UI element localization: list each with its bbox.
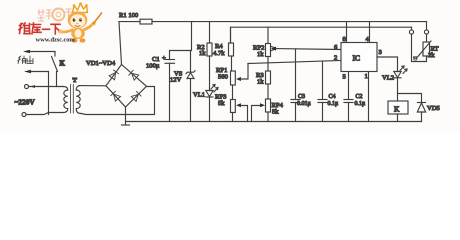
IC pin 4 riser — [369, 22, 371, 43]
svg-text:1k: 1k — [257, 79, 264, 86]
wires RT loop — [412, 34, 427, 61]
wire output bottom down — [48, 72, 50, 115]
wire to VD5 — [398, 94, 422, 103]
svg-text:K: K — [60, 60, 66, 68]
svg-text:1: 1 — [365, 73, 368, 80]
wire R3 to RP4 — [267, 84, 269, 99]
switch K blade — [52, 57, 58, 72]
svg-text:100μ: 100μ — [146, 63, 160, 70]
wire 220V bottom to transformer — [26, 113, 62, 115]
svg-text:VD5: VD5 — [427, 105, 441, 112]
watermark red text 维库一下 — [19, 23, 60, 34]
svg-text:VL1: VL1 — [193, 92, 205, 99]
resistor R4 — [230, 27, 232, 43]
wire relay K to rail — [397, 114, 399, 122]
svg-text:T: T — [73, 77, 78, 84]
transformer secondary winding — [76, 86, 81, 114]
wire 220V top to transformer — [29, 86, 64, 88]
thermistor RT terminals — [426, 22, 428, 30]
capacitor C1 — [170, 22, 192, 60]
pot RP2 — [267, 27, 269, 43]
svg-text:IC: IC — [353, 54, 361, 63]
rail B — [231, 27, 412, 43]
IC pin 8 riser — [346, 22, 348, 43]
diode VD1 (upper-left edge) — [109, 70, 119, 80]
svg-text:560: 560 — [218, 74, 229, 81]
wire RP3 to rail — [232, 113, 234, 122]
IC U1 box — [341, 43, 377, 72]
diode VD5 — [418, 102, 426, 104]
svg-text:+: + — [162, 55, 166, 62]
pot RP3 — [231, 100, 236, 113]
capacitor C4 — [322, 62, 324, 100]
svg-text:4.7k: 4.7k — [213, 50, 225, 57]
svg-text:R1 100: R1 100 — [119, 12, 139, 19]
wire blade to mains line — [56, 72, 58, 87]
diode VD2 (upper-right edge) — [129, 70, 139, 80]
svg-text:5k: 5k — [272, 109, 279, 116]
label 输出 (output) — [18, 56, 34, 64]
resistor R3 — [266, 71, 271, 84]
wire secondary top to bridge left vertex — [79, 85, 106, 87]
resistor R2 — [209, 22, 211, 43]
svg-text:C2: C2 — [356, 94, 363, 100]
top rail A — [119, 21, 140, 23]
thermistor RT — [426, 34, 428, 42]
svg-text:~220V: ~220V — [15, 98, 36, 107]
svg-text:K: K — [394, 105, 400, 114]
watermark faint logo text — [38, 9, 71, 21]
bridge diamond — [106, 65, 147, 108]
svg-text:1k: 1k — [199, 50, 206, 57]
switch K contact stub — [54, 52, 56, 57]
220V terminal bottom — [22, 113, 26, 117]
svg-text:0.1μ: 0.1μ — [355, 101, 366, 107]
wire RP4 to rail — [267, 112, 269, 122]
svg-text:0.01μ: 0.01μ — [297, 101, 311, 107]
svg-text:C4: C4 — [329, 94, 336, 100]
svg-text:R4: R4 — [215, 43, 223, 50]
wire node to IC pin2 — [248, 61, 341, 64]
resistor R1 — [140, 19, 152, 24]
svg-text:2k: 2k — [428, 52, 435, 59]
svg-text:5k: 5k — [218, 100, 225, 107]
LED VL2 — [394, 72, 401, 78]
diode VD4 (lower-right edge) — [131, 92, 141, 102]
IC pin 1 riser to ground rail — [368, 72, 370, 122]
svg-text:2: 2 — [334, 55, 337, 62]
wire RP1 to RP3 — [232, 85, 234, 100]
LED VL1 — [206, 91, 213, 97]
capacitor C3 — [295, 49, 297, 100]
output terminal top (arrow) — [23, 50, 30, 53]
wire secondary bottom to bridge right vertex — [81, 87, 155, 115]
svg-text:1k: 1k — [257, 51, 264, 58]
transformer core — [70, 85, 72, 114]
capacitor C2 — [348, 72, 350, 100]
relay K box — [388, 101, 408, 114]
pot RP4 — [266, 99, 271, 112]
wire R2 to VL1 — [209, 56, 211, 91]
wire RP2 to R3 — [267, 57, 269, 72]
svg-text:VD1~VD4: VD1~VD4 — [86, 60, 116, 67]
ground — [122, 124, 130, 126]
zener diode VS — [190, 51, 192, 73]
transformer primary winding — [63, 87, 68, 113]
wire IC pin3 to VL2 — [377, 57, 398, 72]
wire RP2 wiper to IC pin6 — [276, 48, 342, 51]
svg-text:0.1μ: 0.1μ — [328, 101, 339, 107]
wire bridge top to rail A — [119, 22, 122, 65]
wire R4 to RP1 — [231, 56, 233, 71]
bottom ground rail — [126, 121, 422, 123]
svg-text:www.dzsc.com: www.dzsc.com — [36, 37, 76, 44]
wire VL2 to relay K — [397, 78, 399, 101]
watermark mascot — [58, 2, 102, 42]
output terminal bottom (arrow) — [24, 70, 31, 73]
svg-text:VL2: VL2 — [382, 75, 394, 82]
diode VD3 (lower-left edge) — [111, 91, 121, 101]
pot RP1 — [231, 71, 236, 85]
watermark orange ring logo — [53, 9, 65, 21]
svg-text:12V: 12V — [170, 77, 182, 84]
wire bridge bottom to ground — [125, 107, 127, 122]
220V terminal top — [25, 85, 29, 89]
